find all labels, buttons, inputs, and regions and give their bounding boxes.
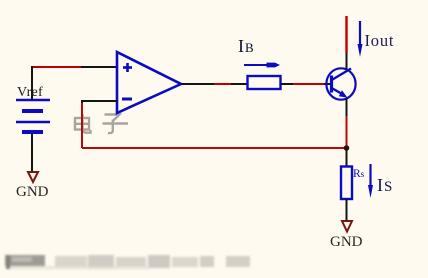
IB label <box>238 36 254 56</box>
wire: feedback to - input (black) <box>82 101 117 104</box>
svg-text:I: I <box>238 36 244 56</box>
Rs label <box>353 168 365 180</box>
wire: battery bottom to GND <box>31 134 33 172</box>
wire: feedback vertical (red) <box>81 103 83 148</box>
wire: emitter down (black) <box>346 99 348 117</box>
ground (right, Rs) <box>342 221 352 232</box>
svg-text:S: S <box>384 179 392 195</box>
svg-text:GND: GND <box>330 234 363 250</box>
transistor Q1 (NPN) <box>326 68 355 99</box>
svg-text:GND: GND <box>16 184 49 200</box>
watermark mosaic bottom <box>5 255 250 270</box>
IB current arrow <box>244 63 280 68</box>
watermark 电子 (drawn strokes) <box>75 114 128 133</box>
svg-text:s: s <box>361 170 365 180</box>
op-amp U1 <box>117 52 181 113</box>
Is label <box>377 175 392 195</box>
wire: battery top vertical <box>31 66 33 99</box>
wire: emitter to node (red) <box>346 116 348 148</box>
wire: output red segment <box>214 83 231 85</box>
wire: to resistor left (black) <box>231 83 247 85</box>
resistor Rs <box>341 167 352 200</box>
svg-text:Iout: Iout <box>365 31 395 50</box>
wire: collector top (red) <box>345 16 347 53</box>
wire: Vref top corner to op-amp + input (red part) <box>32 66 81 68</box>
battery V1 (Vref source) <box>16 100 50 134</box>
wire: to transistor base (red) <box>293 83 324 85</box>
svg-text:I: I <box>377 175 383 195</box>
op-amp - input marker <box>122 98 132 101</box>
Is current arrow <box>368 164 373 198</box>
wire: collector up (black) <box>346 53 348 69</box>
Iout current arrow <box>358 21 363 57</box>
node junction (feedback / emitter / Rs) <box>344 145 350 151</box>
ground (left, Vref) <box>28 172 38 182</box>
svg-text:Vref: Vref <box>17 85 43 100</box>
svg-text:B: B <box>245 40 254 55</box>
wire: node to Rs (black) <box>346 148 348 166</box>
op-amp + input marker <box>123 63 132 72</box>
wire: resistor right (black) <box>281 83 293 85</box>
wire: feedback horizontal (red) <box>82 147 347 149</box>
resistor R1 (base resistor) <box>248 76 281 89</box>
wire: transistor base stub (black) <box>324 83 331 85</box>
wire: to op-amp + input (black part) <box>81 66 117 68</box>
wire: Rs bottom to GND (black) <box>346 199 348 221</box>
wire: op-amp output (black) <box>181 83 214 85</box>
